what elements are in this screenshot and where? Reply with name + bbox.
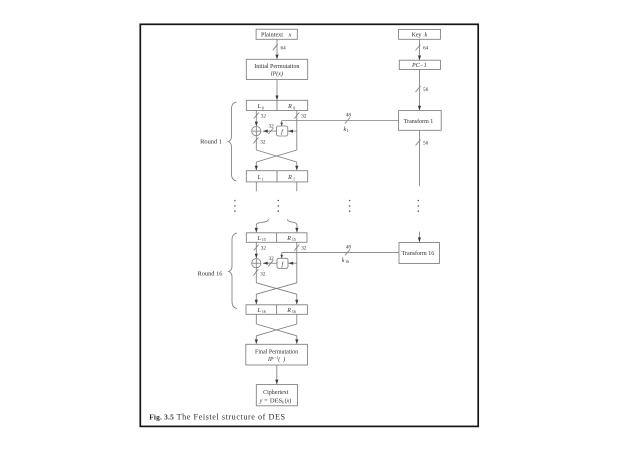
- box Ciphertext: [256, 385, 297, 406]
- svg-text:32: 32: [301, 246, 307, 252]
- wire into Transform16: [418, 232, 421, 243]
- ellipsis dots column (center): [278, 200, 280, 212]
- ellipsis dots column (rounds, left): [234, 200, 236, 212]
- wire R0 branch into f round1: [288, 130, 297, 133]
- wire XOR output down round16: [255, 268, 257, 283]
- wire R15 down round16: [296, 242, 298, 282]
- box Key k: [399, 29, 441, 39]
- svg-text:R: R: [286, 308, 291, 314]
- wire f to XOR round1: [263, 130, 277, 133]
- bus slash 64 (key): [416, 45, 429, 52]
- svg-text:64: 64: [281, 46, 287, 52]
- f-box round16: [277, 258, 288, 268]
- svg-text:L: L: [257, 236, 262, 242]
- svg-text:Initial Permutation: Initial Permutation: [254, 64, 299, 70]
- box PC-1: [399, 60, 440, 69]
- svg-text:56: 56: [423, 141, 429, 147]
- svg-text:32: 32: [269, 124, 275, 130]
- svg-text:f: f: [282, 261, 285, 268]
- svg-text:R: R: [286, 236, 291, 242]
- svg-text:1: 1: [347, 128, 349, 133]
- svg-text:k: k: [425, 33, 428, 39]
- svg-text:16: 16: [292, 309, 296, 314]
- svg-text:Key: Key: [412, 33, 422, 39]
- svg-text:16: 16: [262, 309, 266, 314]
- bus slash 48 (k1): [345, 113, 351, 124]
- svg-text:IP−1( ): IP−1( ): [267, 355, 285, 363]
- wire k1 from Transform1 into f top: [280, 121, 398, 127]
- XOR round1: [252, 127, 261, 136]
- bus slash 32 (L15): [254, 245, 267, 252]
- wire curve into L15: [255, 219, 269, 232]
- svg-text:L: L: [257, 104, 262, 110]
- svg-text:L: L: [257, 308, 262, 314]
- svg-text:L: L: [257, 175, 262, 181]
- svg-text:IP(x): IP(x): [270, 70, 283, 77]
- svg-text:Ciphertext: Ciphertext: [263, 390, 289, 396]
- box Initial Permutation IP(x): [246, 59, 307, 79]
- wire Key to PC-1: [418, 39, 421, 60]
- svg-text:Round 1: Round 1: [200, 139, 222, 146]
- crossing wires round1: [255, 150, 299, 170]
- svg-text:f: f: [281, 129, 284, 136]
- wire R15 branch into f round16: [288, 262, 296, 265]
- svg-text:R: R: [287, 104, 292, 110]
- box Transform 1: [399, 111, 442, 131]
- bus slash 32 (R0): [294, 113, 307, 120]
- svg-text:48: 48: [346, 113, 352, 119]
- wire L15 down to XOR round16: [255, 242, 258, 258]
- ellipsis dots column (subkeys): [349, 200, 351, 212]
- label k16: [342, 258, 349, 264]
- svg-text:32: 32: [260, 140, 266, 146]
- wire curve into R15: [287, 219, 298, 232]
- svg-text:1: 1: [262, 176, 264, 181]
- bus slash 32 (R15): [294, 245, 307, 252]
- bus slash 32 (XOR out round16): [253, 270, 266, 278]
- wire XOR output down round1: [255, 136, 257, 150]
- svg-text:0: 0: [293, 105, 295, 110]
- brace Round 1: [200, 102, 236, 181]
- wire FP to Ciphertext: [275, 365, 278, 384]
- bus slash 64 (plaintext): [273, 44, 286, 51]
- box L16 R16: [246, 305, 307, 315]
- svg-text:56: 56: [423, 87, 429, 93]
- crossing wires below L16R16: [255, 314, 299, 344]
- svg-text:15: 15: [292, 237, 296, 242]
- wire PC-1 to Transform 1: [418, 70, 421, 111]
- svg-text:32: 32: [269, 256, 275, 262]
- svg-text:Plaintext: Plaintext: [261, 32, 283, 39]
- label k1: [344, 127, 349, 133]
- wire plaintext to IP: [275, 39, 278, 59]
- box Plaintext x: [256, 29, 297, 39]
- svg-text:y=DESk(x): y=DESk(x): [259, 397, 292, 404]
- svg-text:16: 16: [345, 259, 349, 264]
- page border frame: [140, 24, 478, 426]
- svg-text:1: 1: [293, 176, 295, 181]
- XOR round16: [252, 259, 261, 268]
- f-box round1: [277, 126, 288, 136]
- bus slash 48 (k16): [345, 245, 351, 256]
- svg-text:Round 16: Round 16: [197, 271, 222, 278]
- bus slash 56 (PC-1 out): [416, 86, 429, 93]
- svg-text:Transform 1: Transform 1: [404, 118, 434, 125]
- box L0 R0: [246, 100, 307, 110]
- svg-text:0: 0: [262, 105, 264, 110]
- box L15 R15: [246, 233, 307, 243]
- crossing wires round16: [255, 283, 299, 305]
- svg-text:x: x: [288, 32, 292, 39]
- bus slash 32 (f to XOR): [268, 124, 274, 134]
- svg-text:32: 32: [261, 246, 267, 252]
- wire k16 from Transform16 into f top: [280, 252, 399, 258]
- wires below L1R1: [256, 182, 297, 191]
- wire f to XOR round16: [263, 262, 277, 265]
- svg-text:R: R: [287, 175, 292, 181]
- wire R0 down round1: [296, 111, 298, 151]
- brace Round 16: [197, 233, 237, 309]
- svg-text:48: 48: [346, 245, 352, 251]
- svg-text:Transform 16: Transform 16: [402, 250, 435, 257]
- caption Fig. 3.5: [149, 413, 285, 422]
- box L1 R1: [246, 171, 307, 182]
- svg-text:64: 64: [423, 46, 429, 52]
- svg-text:Fig. 3.5 The Feistel structure: Fig. 3.5 The Feistel structure of DES: [149, 413, 285, 422]
- svg-text:15: 15: [262, 237, 266, 242]
- bus slash 56 (Transform1 out): [416, 140, 429, 147]
- box Final Permutation: [246, 344, 308, 365]
- bus slash 32 (XOR out round1): [253, 138, 266, 146]
- bus slash 32 (f to XOR round16): [268, 256, 274, 266]
- wire Transform1 down: [419, 130, 421, 186]
- svg-text:PC−1: PC−1: [411, 63, 427, 69]
- svg-text:32: 32: [260, 272, 266, 278]
- wire L0 down to XOR round1: [255, 111, 258, 127]
- svg-text:32: 32: [301, 114, 307, 120]
- bus slash 32 (L0): [254, 113, 267, 120]
- box Transform 16: [399, 243, 440, 264]
- svg-text:32: 32: [261, 114, 267, 120]
- ellipsis dots column (key schedule): [418, 200, 420, 212]
- wire IP to L0R0: [275, 79, 278, 100]
